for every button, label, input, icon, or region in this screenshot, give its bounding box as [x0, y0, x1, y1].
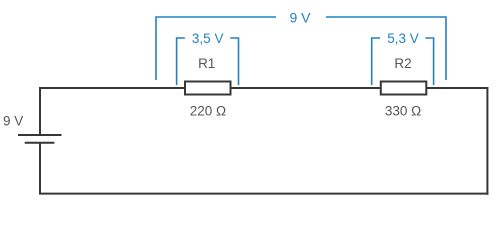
- voltage bracket 3,5 V (across R1, left tick): [177, 38, 185, 85]
- svg-text:R1: R1: [198, 56, 215, 71]
- label 9 V (battery value): [3, 113, 23, 128]
- svg-text:330 Ω: 330 Ω: [385, 103, 421, 118]
- label R1: [198, 56, 215, 71]
- wire: right segment: [486, 87, 488, 195]
- svg-text:9 V: 9 V: [289, 9, 311, 25]
- label 5,3 V (voltage across R2): [387, 31, 419, 46]
- resistor R2 body: [381, 82, 427, 95]
- voltage bracket 9 V (total, left half): [156, 17, 276, 80]
- voltage bracket 5,3 V (across R2, left tick): [372, 38, 380, 85]
- battery B1 (9 V source, long plate): [18, 134, 62, 136]
- label 9 V (total voltage): [289, 9, 311, 25]
- label 3,5 V (voltage across R1): [192, 31, 224, 46]
- svg-text:9 V: 9 V: [3, 113, 23, 128]
- label R2: [394, 56, 411, 71]
- voltage bracket 9 V (total, right half): [326, 17, 446, 80]
- svg-text:5,3 V: 5,3 V: [387, 31, 419, 46]
- wire: bottom segment: [39, 193, 488, 195]
- voltage bracket 5,3 V (across R2, right tick): [425, 38, 433, 85]
- value label 220 Ohm: [190, 103, 226, 118]
- wire: top segment: [39, 87, 488, 89]
- wire: left upper segment (battery to top-left corner): [39, 87, 41, 135]
- svg-text:220 Ω: 220 Ω: [190, 103, 226, 118]
- wire: left lower segment (bottom-left corner to battery): [39, 143, 41, 195]
- value label 330 Ohm: [385, 103, 421, 118]
- resistor R1 body: [185, 82, 231, 95]
- battery B1 short plate: [25, 142, 55, 144]
- voltage bracket 3,5 V (across R1, right tick): [230, 38, 238, 85]
- svg-text:3,5 V: 3,5 V: [192, 31, 224, 46]
- svg-text:R2: R2: [394, 56, 411, 71]
